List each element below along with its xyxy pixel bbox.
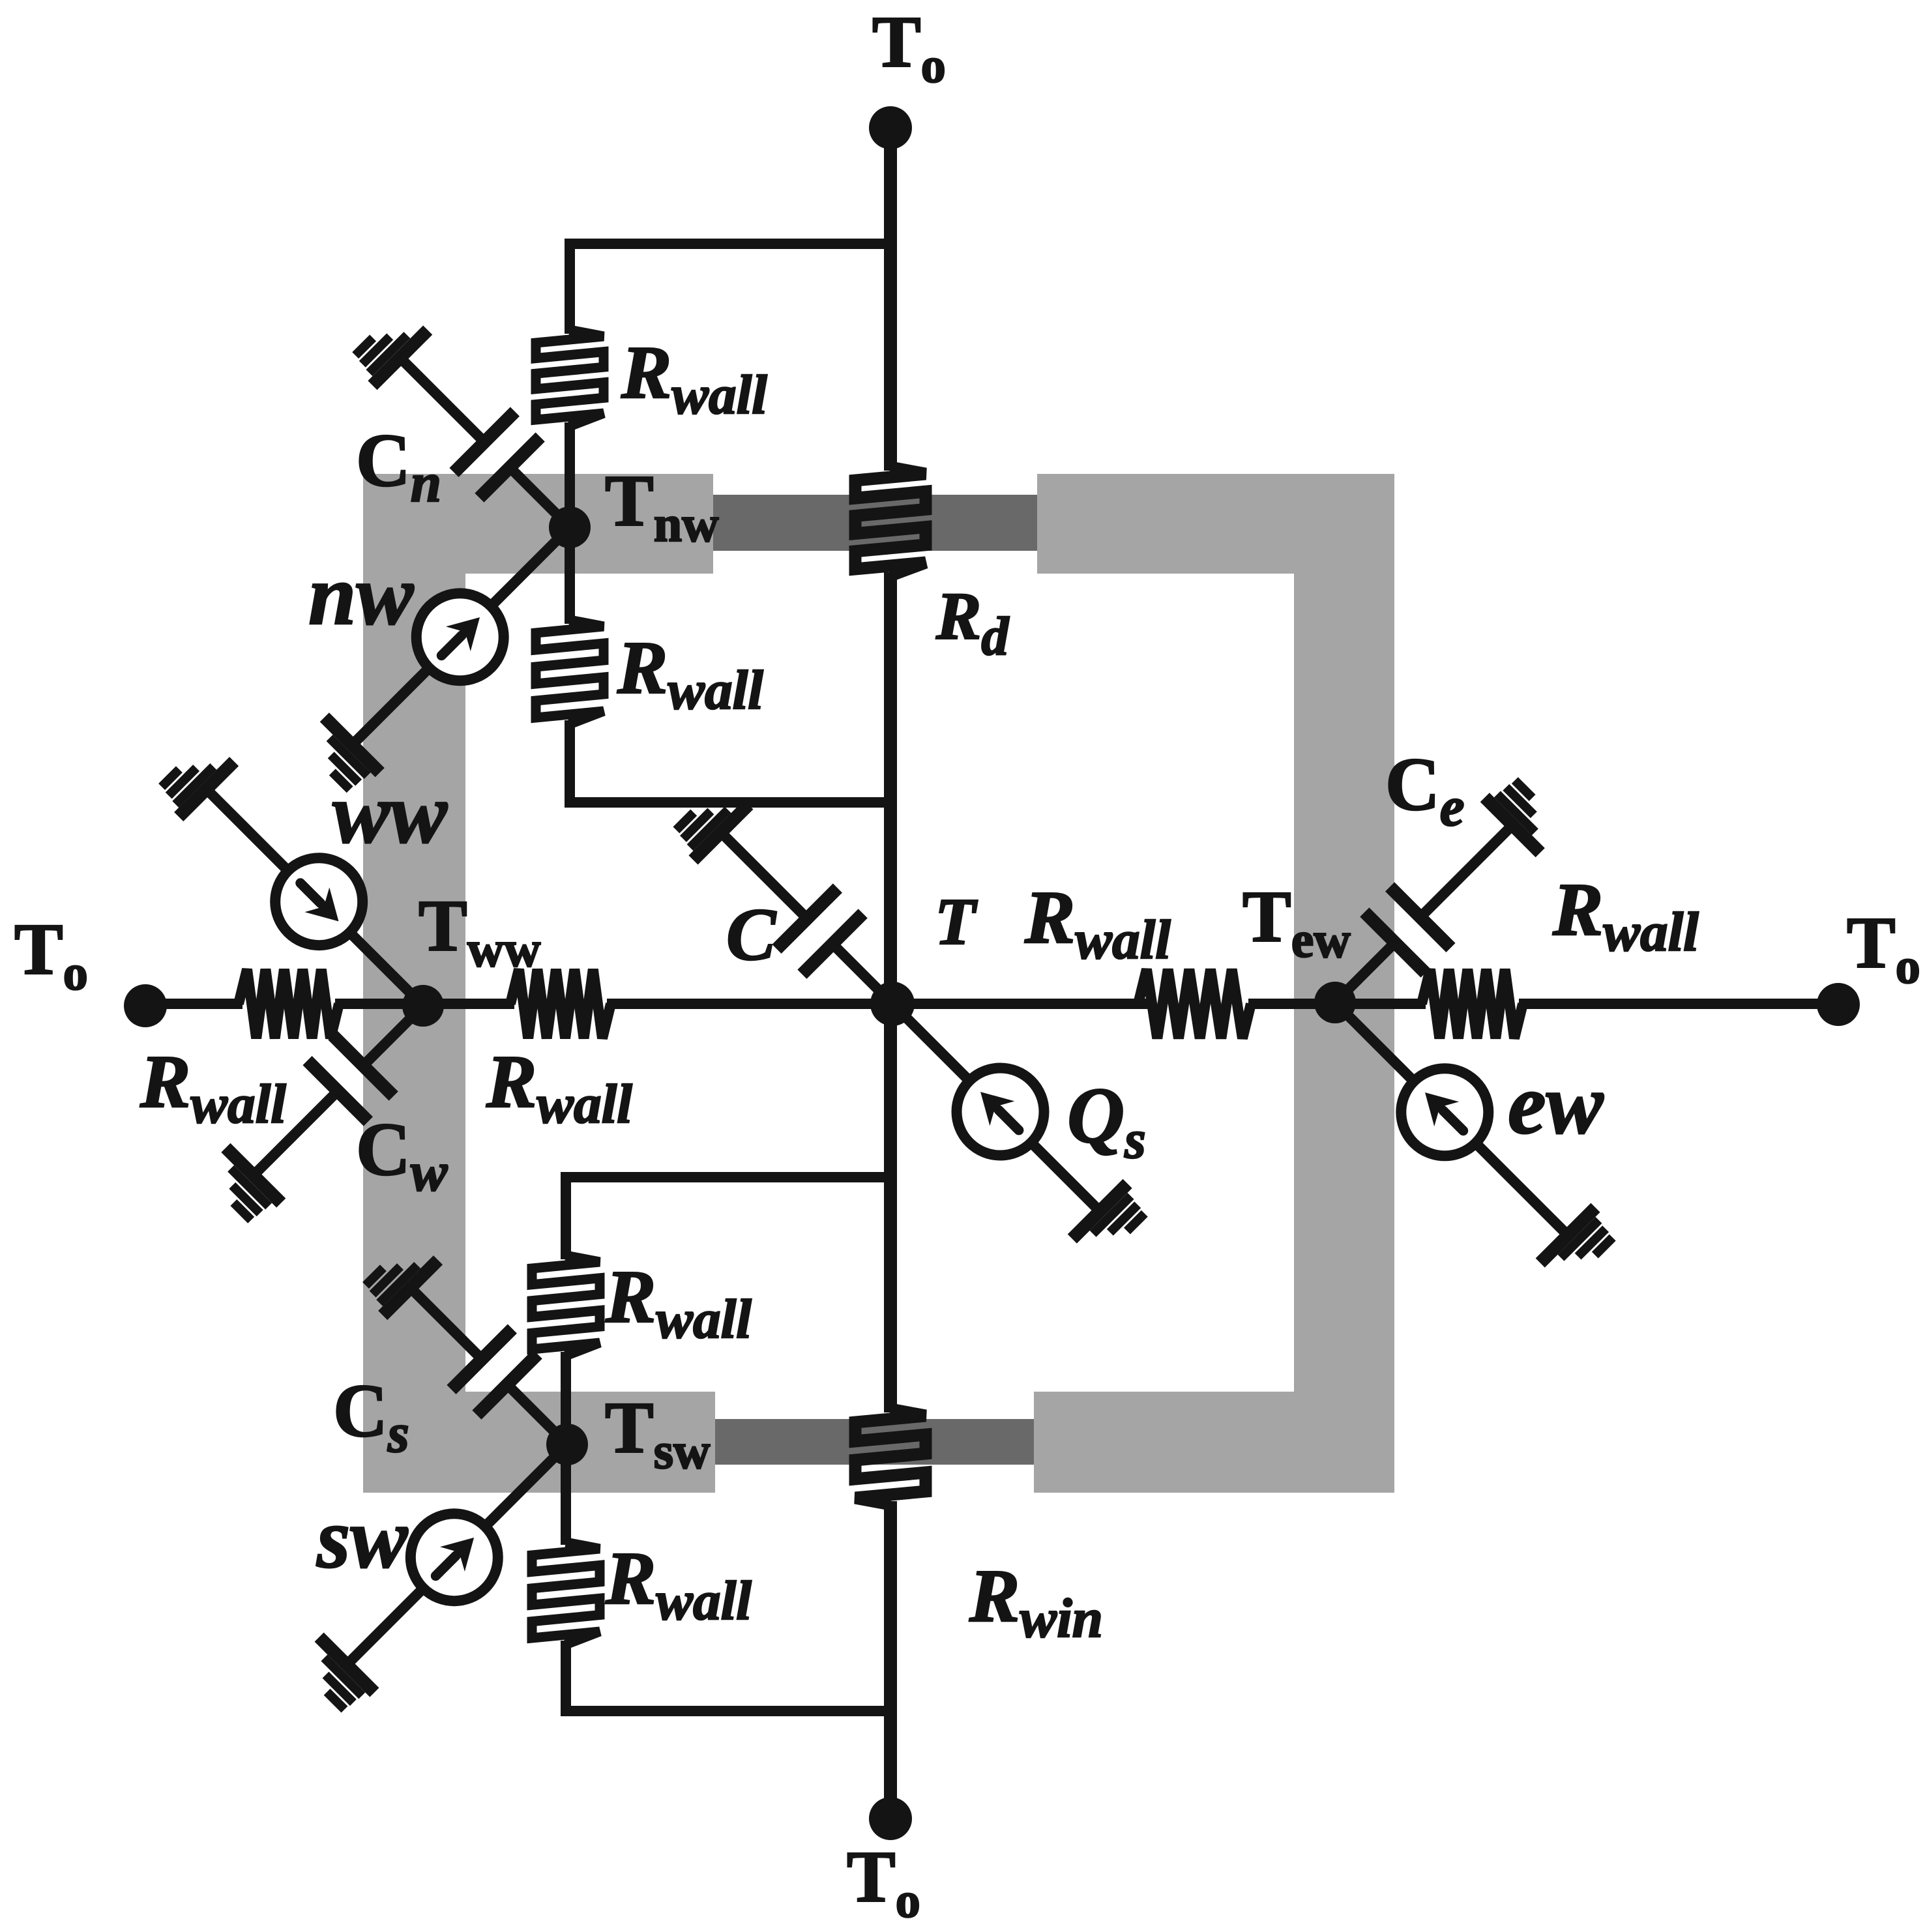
resistor Rwall (east outer) [1422, 969, 1523, 1038]
capacitor Cs [509, 1386, 567, 1444]
door bar north (dark gray) [713, 495, 1037, 551]
node Tnw [549, 506, 591, 548]
current source sw [485, 1444, 567, 1527]
ground hatch of Cw [226, 1148, 281, 1203]
ground hatch of source ew [1540, 1208, 1596, 1263]
resistor Rwall (south-west upper coil) [532, 1255, 600, 1356]
wall block south-east [1034, 1392, 1394, 1493]
svg-text:ww: ww [332, 765, 448, 861]
wire Rwall to node Tww [335, 999, 423, 1009]
resistor Rwall (east inner) [1138, 969, 1251, 1038]
wire Rwall to right To [1519, 999, 1838, 1009]
resistor Rwall (west inner) [510, 969, 611, 1038]
svg-text:sw: sw [316, 1490, 408, 1586]
capacitor Cn [512, 469, 570, 527]
current source ew [1335, 1003, 1414, 1081]
svg-text:ew: ew [1508, 1056, 1604, 1152]
resistor Rd (door, on centre vertical) [855, 467, 926, 576]
resistor Rwall (north-west lower coil) [536, 620, 604, 724]
ground hatch of source ww [179, 761, 234, 817]
wire Rwin to bottom To [884, 1501, 897, 1819]
resistor Rwall (south-west lower coil) [532, 1542, 600, 1645]
wire north loop top [570, 244, 890, 334]
terminal To bottom [869, 1797, 912, 1840]
ground hatch of Cs [383, 1260, 438, 1315]
terminal To right [1817, 983, 1860, 1026]
current source ww [350, 933, 423, 1006]
capacitor Ce [1335, 944, 1393, 1003]
resistor Rwall (north-west upper coil) [536, 330, 604, 426]
ground hatch of Cn [372, 330, 428, 385]
wire north branch middle [565, 422, 575, 624]
terminal To top [869, 106, 912, 149]
svg-text:T: T [935, 885, 978, 959]
svg-text:nw: nw [308, 547, 414, 643]
current source nw [491, 527, 570, 606]
ground hatch of C [694, 805, 749, 860]
wall band west (light gray) [363, 474, 465, 1493]
node T (centre) [870, 982, 915, 1026]
current source Qs [892, 1004, 969, 1081]
wire Rd to node T [884, 572, 897, 1004]
wire node T down to Rwin [884, 1004, 897, 1412]
wire top To to Rd [884, 128, 897, 471]
resistor Rwall (west outer) [239, 969, 339, 1038]
ground hatch of Ce [1485, 797, 1540, 853]
ground hatch of source sw [319, 1637, 375, 1693]
wire south branch middle [561, 1352, 571, 1545]
node Tsw [546, 1424, 588, 1465]
node Tww [402, 985, 444, 1027]
wire Rwall to node T [607, 999, 890, 1009]
svg-text:C: C [726, 893, 777, 976]
wire node Tww to Rwall [423, 999, 514, 1009]
wire node Tew to Rwall [1335, 999, 1426, 1009]
ground hatch of source nw [325, 717, 380, 772]
resistor Rwin (window, on centre vertical) [855, 1409, 926, 1504]
wire south loop top [566, 1177, 890, 1259]
wire node T to Rwall [890, 999, 1148, 1009]
wire Rwall to node Tew [1248, 999, 1335, 1009]
capacitor C (room air) [834, 946, 892, 1004]
wall band east [1294, 474, 1394, 1493]
terminal To left [124, 984, 167, 1027]
ground hatch of source Qs [1072, 1184, 1128, 1239]
capacitor Cw [365, 1006, 423, 1064]
wire left To to Rwall [145, 999, 242, 1009]
window bar south (dark gray) [715, 1419, 1034, 1465]
wall block north-west [363, 474, 713, 574]
node Tew [1314, 982, 1356, 1023]
wall block south-west [363, 1392, 715, 1493]
wire north loop bottom [570, 720, 890, 802]
wire south loop bottom [566, 1641, 890, 1711]
wall block north-east [1037, 474, 1394, 574]
